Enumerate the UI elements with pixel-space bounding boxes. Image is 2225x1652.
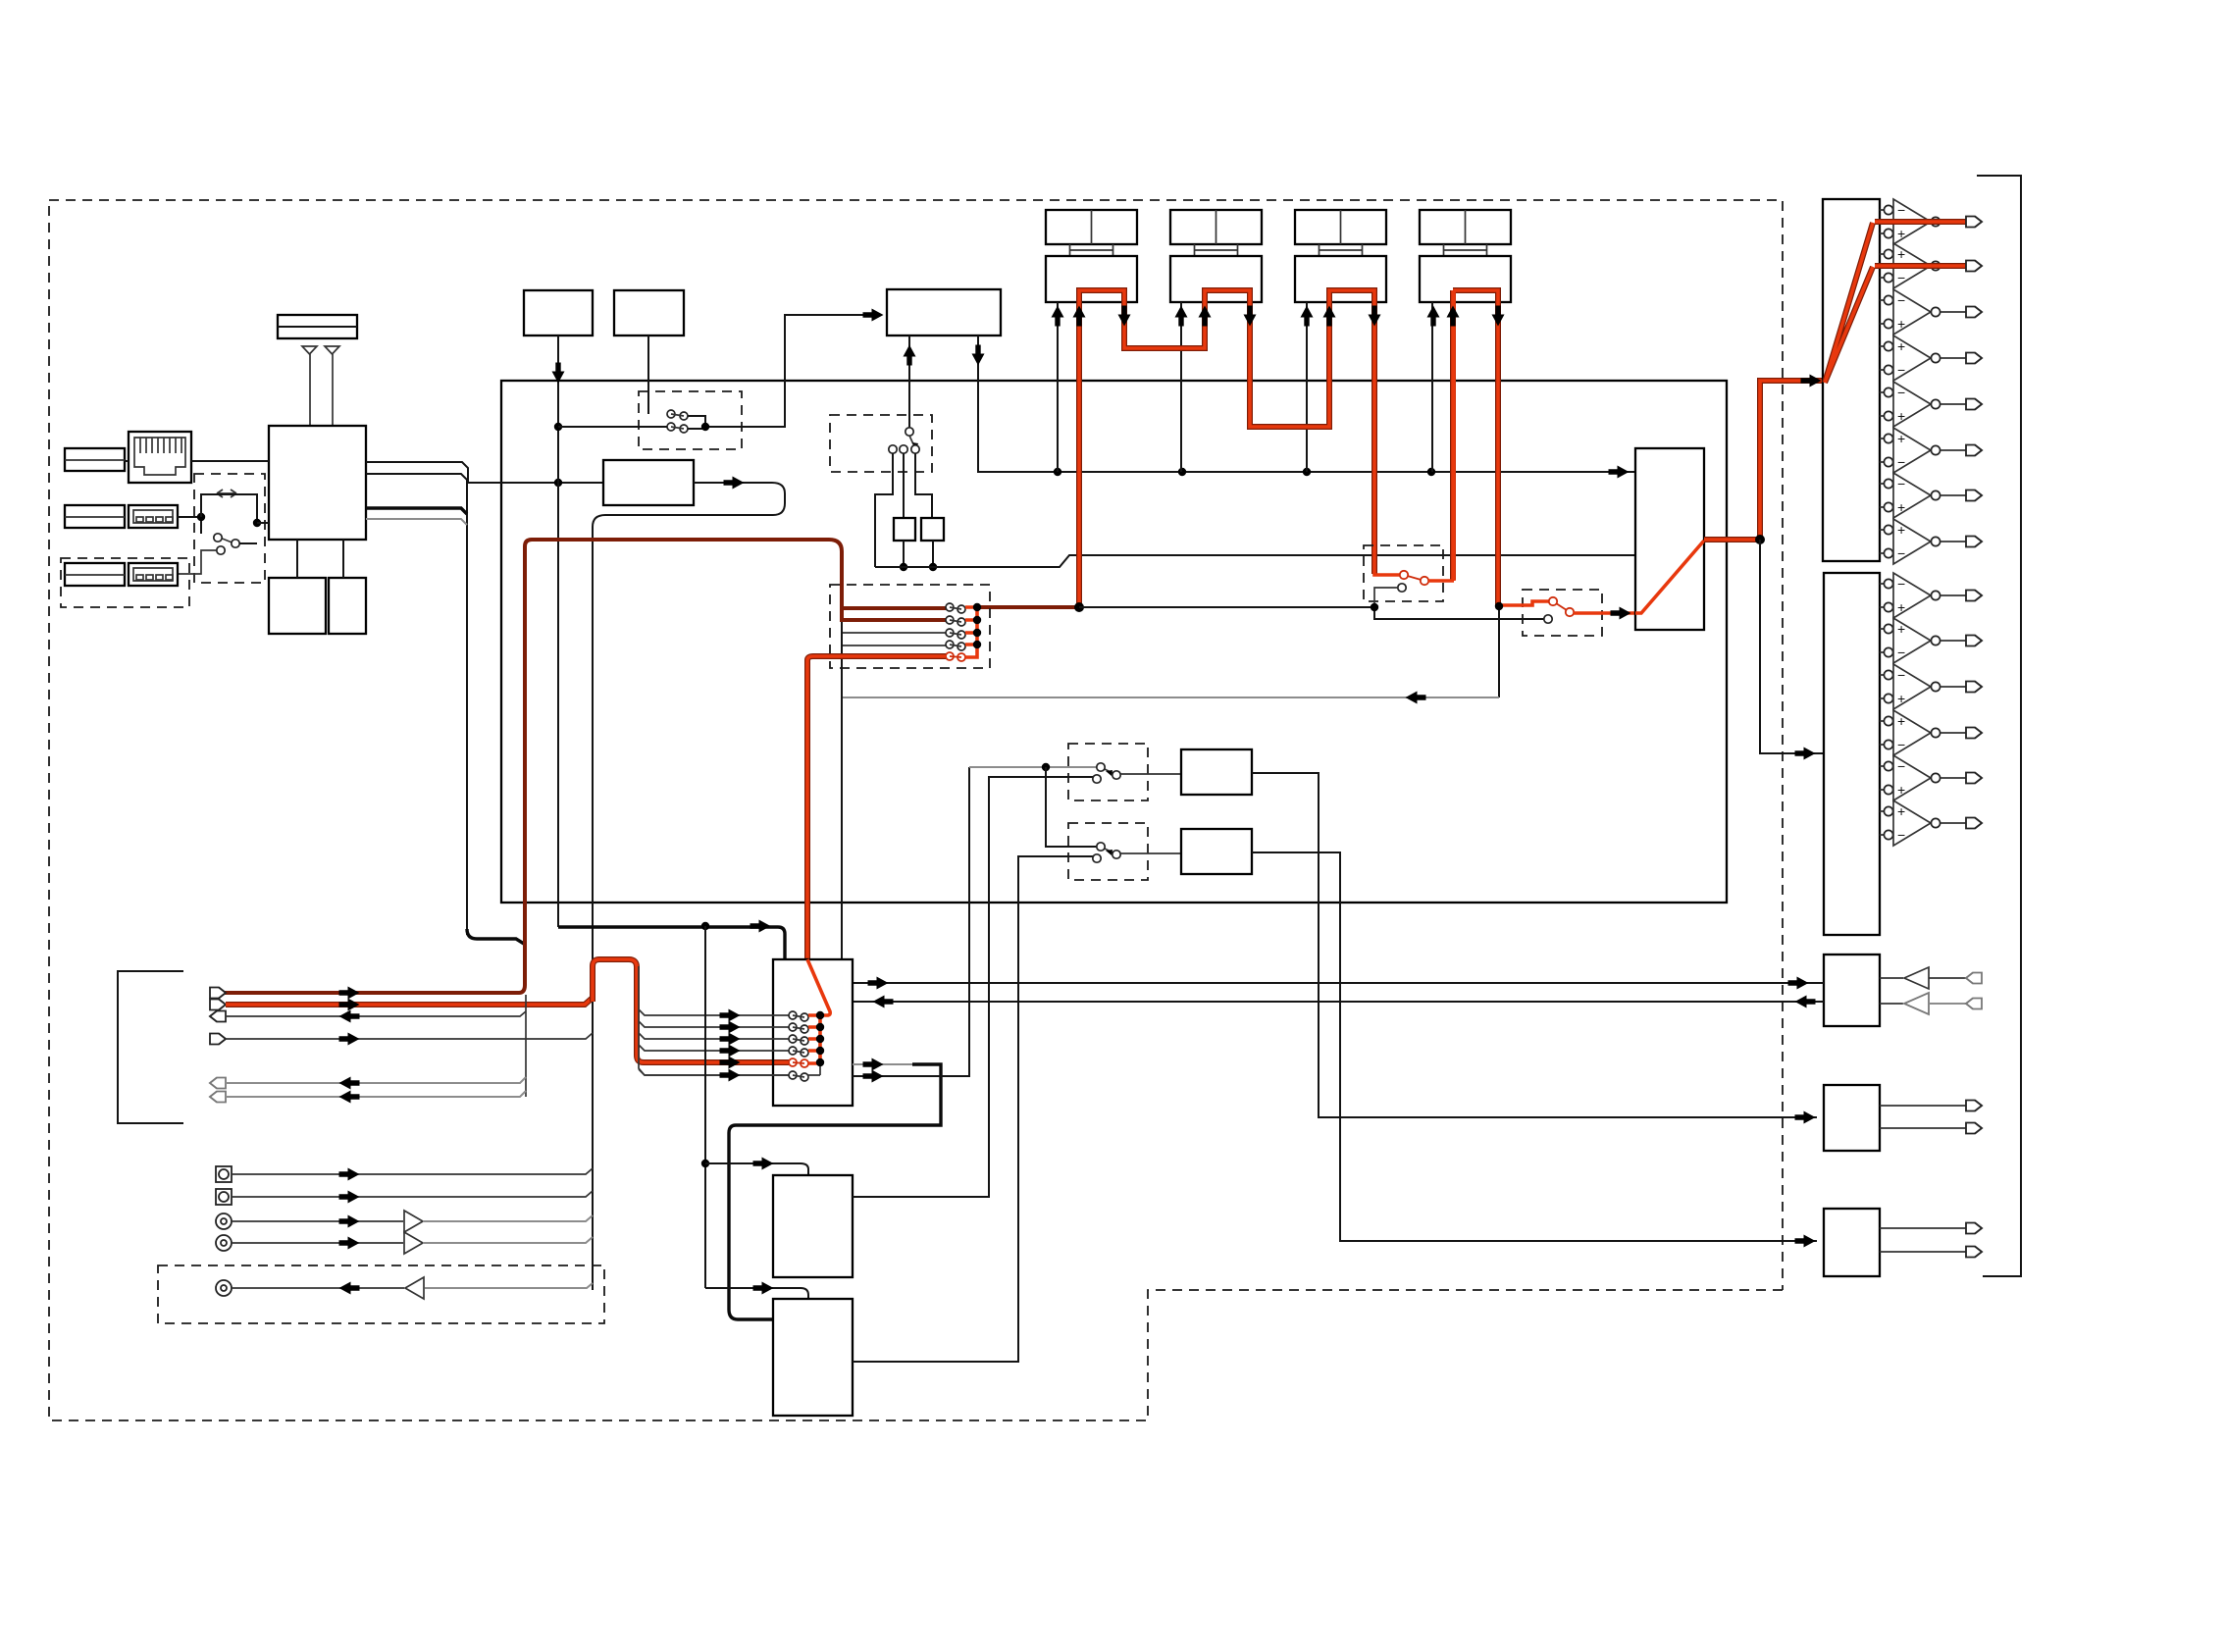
bank1 amp 6 xyxy=(1880,439,1884,462)
svg-text:+: + xyxy=(1897,782,1905,798)
strip 4 top box xyxy=(1420,210,1511,244)
arrow xyxy=(1052,306,1064,327)
buffer amp 3 xyxy=(405,1277,424,1299)
rec out A stub xyxy=(853,1063,912,1065)
bank1 amp 2 xyxy=(1880,254,1884,278)
switch B throw2 xyxy=(1093,854,1101,862)
box1 out wire xyxy=(853,777,1093,1197)
junction xyxy=(1427,468,1435,476)
red wire switch1 out xyxy=(1428,579,1454,583)
junction xyxy=(554,479,562,487)
arrow xyxy=(904,345,916,366)
wire rca2 xyxy=(232,1242,403,1244)
arrow xyxy=(1199,306,1212,327)
svg-text:+: + xyxy=(1897,713,1905,729)
strip 3 top box xyxy=(1295,210,1386,244)
arrow xyxy=(339,1010,360,1023)
rca connector 2 xyxy=(216,1235,232,1251)
junction xyxy=(816,1047,824,1055)
junction xyxy=(1178,468,1186,476)
strip 2 bottom box xyxy=(1170,256,1262,302)
switch contact xyxy=(667,423,675,431)
arrow xyxy=(1795,748,1816,760)
red hump core xyxy=(593,959,789,1062)
switch contact xyxy=(906,428,913,436)
input wire 3 xyxy=(226,1011,526,1016)
strip 4 bottom box xyxy=(1420,256,1511,302)
svg-text:−: − xyxy=(1897,362,1905,378)
junction xyxy=(1371,603,1378,611)
input wire 2 core xyxy=(226,998,593,1005)
arrow xyxy=(1301,306,1314,327)
junction xyxy=(197,513,205,521)
arrow xyxy=(339,1282,360,1295)
junction xyxy=(701,1160,709,1167)
arrow xyxy=(1788,977,1809,990)
svg-text:+: + xyxy=(1897,599,1905,615)
tuner main block xyxy=(269,426,366,540)
arrow xyxy=(720,1057,741,1069)
arrow xyxy=(1447,306,1460,327)
loop wire xyxy=(593,483,785,1290)
switch A pole xyxy=(1097,763,1105,771)
tuner bus corner to AF xyxy=(467,929,524,944)
bank2 amp 1 xyxy=(1880,584,1884,607)
red hump xyxy=(593,959,789,1062)
output connector xyxy=(1966,682,1982,693)
bank1 amp 7 xyxy=(1880,484,1884,507)
output connector xyxy=(1966,636,1982,646)
matrix fan row xyxy=(639,1021,789,1027)
monitor switch dashed box xyxy=(1364,545,1443,601)
svg-text:−: − xyxy=(1897,758,1905,774)
lineI connector 1 xyxy=(1966,1101,1982,1111)
hp feed R xyxy=(853,1001,1824,1003)
junction xyxy=(1054,468,1061,476)
input wire 2 red xyxy=(226,998,593,1005)
junction xyxy=(554,423,562,431)
switch contact xyxy=(680,425,688,433)
bottom row dashed box xyxy=(61,558,189,607)
tuner out 1 xyxy=(366,462,468,483)
PLL block G xyxy=(887,289,1001,336)
strip 1 top box xyxy=(1046,210,1137,244)
processor box 1 xyxy=(773,1175,853,1277)
switch arm xyxy=(220,538,234,543)
wire rca2 out xyxy=(423,1237,593,1243)
fan switch xyxy=(946,641,954,648)
lineJ wire 1 xyxy=(1880,1227,1966,1229)
switch contact xyxy=(911,445,919,453)
hp wire 2 xyxy=(1929,1003,1966,1005)
switch1 throw2 xyxy=(1398,584,1406,592)
strip 4 link xyxy=(1444,244,1487,256)
arrow xyxy=(339,1077,360,1090)
arrow xyxy=(339,999,360,1011)
arrow xyxy=(1795,1111,1816,1124)
output connector xyxy=(1966,773,1982,784)
lineI wire 2 xyxy=(1880,1127,1966,1129)
strip 2 top box xyxy=(1170,210,1262,244)
strip 3 link xyxy=(1319,244,1363,256)
input plug 2 xyxy=(210,1000,226,1010)
hp line 2 xyxy=(1880,1003,1903,1005)
junction xyxy=(1074,602,1084,612)
bank1 amp 3 xyxy=(1880,300,1884,324)
output side bracket xyxy=(1977,176,2021,1276)
matrix switch xyxy=(789,1011,797,1019)
svg-text:+: + xyxy=(1897,226,1905,241)
junction xyxy=(1495,602,1503,610)
switch A arm xyxy=(1101,767,1114,774)
wire row1 to RJ45 xyxy=(125,460,129,462)
hp line 1 xyxy=(1880,977,1903,979)
svg-text:−: − xyxy=(1897,202,1905,218)
output connector xyxy=(1966,818,1982,829)
arrow xyxy=(1244,306,1257,327)
lineI connector 2 xyxy=(1966,1123,1982,1134)
wire G pin1 xyxy=(908,336,910,428)
arrow xyxy=(1175,306,1188,327)
svg-text:+: + xyxy=(1897,803,1905,819)
matrix chain tail xyxy=(808,1062,820,1075)
matrix fan row xyxy=(639,1009,789,1015)
svg-text:−: − xyxy=(1897,737,1905,752)
wire B out xyxy=(1120,852,1181,854)
arrow xyxy=(1118,306,1131,327)
arrow xyxy=(1073,306,1086,327)
antenna terminal box xyxy=(278,315,357,338)
svg-text:−: − xyxy=(1897,667,1905,683)
arrow xyxy=(720,1045,741,1058)
wire switch out xyxy=(201,521,257,543)
wire rca3 out xyxy=(232,1287,404,1289)
resonator wiring xyxy=(875,453,932,567)
matrix switch red xyxy=(789,1058,797,1066)
selector red diagonal xyxy=(1635,541,1704,613)
arrow xyxy=(1369,306,1381,327)
arrow xyxy=(720,1009,741,1022)
input wire 4 xyxy=(226,1033,593,1039)
terminal box row2 xyxy=(65,505,125,528)
antenna symbol 1 xyxy=(302,346,317,354)
switch B out contact xyxy=(1112,851,1120,858)
wire C to line I xyxy=(1252,773,1817,1117)
tuner out 2 xyxy=(366,474,467,935)
switch arm xyxy=(909,436,914,446)
junction xyxy=(1755,535,1765,544)
wire strip3 ctrl xyxy=(1306,302,1308,472)
matrix chain red xyxy=(808,1015,820,1063)
fan switch red xyxy=(946,652,954,660)
wire res gnd1 xyxy=(903,541,905,567)
arrow xyxy=(339,1215,360,1228)
fan chain xyxy=(965,607,977,657)
arrow xyxy=(863,309,884,322)
wire to power amp xyxy=(1760,540,1824,753)
svg-text:+: + xyxy=(1897,499,1905,515)
arrow xyxy=(1795,996,1816,1008)
arrow xyxy=(1801,375,1822,387)
arrow xyxy=(1323,306,1336,327)
input link bus xyxy=(525,995,527,1097)
output connector xyxy=(1966,353,1982,364)
junction xyxy=(816,1011,824,1019)
arrow xyxy=(1795,1235,1816,1248)
box2 out wire xyxy=(853,856,1093,1362)
svg-text:+: + xyxy=(1897,316,1905,332)
matrix fan row xyxy=(639,1045,789,1051)
bank2 amp 3 xyxy=(1880,675,1884,698)
bidirectional glyph xyxy=(217,490,236,497)
lineJ connector 1 xyxy=(1966,1223,1982,1234)
wire strip1 ctrl xyxy=(1057,302,1059,472)
arrow xyxy=(720,1033,741,1046)
switch contact xyxy=(667,410,675,418)
control bus A xyxy=(1058,471,1635,473)
bank2 amp 5 xyxy=(1880,766,1884,790)
headphone amp box xyxy=(1824,955,1880,1026)
wire switch link xyxy=(688,416,705,427)
svg-text:−: − xyxy=(1897,827,1905,843)
driver bank 2 box xyxy=(1824,573,1880,935)
arrow xyxy=(1406,692,1426,704)
red riser xyxy=(807,656,946,959)
arrow xyxy=(339,1033,360,1046)
lineI wire 1 xyxy=(1880,1105,1966,1107)
red switch contact xyxy=(1566,608,1574,616)
wire tuner to sub A xyxy=(296,540,298,578)
resonator X1 xyxy=(894,518,915,541)
svg-text:+: + xyxy=(1897,338,1905,354)
optical connector 2 xyxy=(216,1189,232,1205)
strip 3 bottom box xyxy=(1295,256,1386,302)
fan row3 xyxy=(842,632,946,634)
wire rca1 out xyxy=(423,1215,593,1221)
driver bank 1 box xyxy=(1823,199,1880,561)
switch B dashed box xyxy=(1068,823,1148,880)
input plug 5 xyxy=(210,1078,226,1089)
red fan to amp1 xyxy=(1825,223,1873,383)
hp triangle 1 xyxy=(1904,967,1929,989)
arrow xyxy=(753,1158,774,1170)
RJ45 jack xyxy=(129,432,191,483)
junction xyxy=(929,563,937,571)
svg-text:−: − xyxy=(1897,454,1905,470)
matrix fan row xyxy=(639,1069,789,1075)
red switch arm xyxy=(1553,601,1570,612)
svg-text:+: + xyxy=(1897,246,1905,262)
junction xyxy=(1042,763,1050,771)
switch contact xyxy=(680,412,688,420)
arrow xyxy=(1427,306,1440,327)
svg-text:+: + xyxy=(1897,522,1905,538)
red switch arm xyxy=(1404,575,1424,581)
selector box xyxy=(1635,448,1704,630)
input plug 6 xyxy=(210,1092,226,1103)
tuner out 3 xyxy=(366,508,467,514)
switch B arm xyxy=(1101,847,1114,853)
arrow xyxy=(1609,466,1630,479)
red switch contact xyxy=(1400,571,1408,579)
svg-text:−: − xyxy=(1897,476,1905,491)
buffer amp 1 xyxy=(404,1211,423,1232)
arrow xyxy=(868,977,889,990)
red switch contact xyxy=(1549,597,1557,605)
wire box1 top xyxy=(705,1163,808,1175)
rec select dashed box xyxy=(1523,590,1602,636)
input bracket xyxy=(118,971,183,1123)
output connector xyxy=(1966,399,1982,410)
mute switch dashed box xyxy=(639,391,742,449)
bank2 amp 2 xyxy=(1880,629,1884,652)
red selector out xyxy=(1704,381,1823,540)
svg-text:+: + xyxy=(1897,408,1905,424)
arrow xyxy=(863,1070,884,1083)
line out box I xyxy=(1824,1085,1880,1151)
matrix switch xyxy=(789,1071,797,1079)
wire rec bus down xyxy=(841,622,843,959)
tuner sub-block A xyxy=(269,578,326,634)
input wire 5 xyxy=(226,1077,526,1083)
arrow xyxy=(339,1091,360,1104)
hp triangle 2 xyxy=(1904,993,1929,1014)
monitor bus thin xyxy=(1079,607,1544,619)
wire res gnd2 xyxy=(932,541,934,567)
rec out B xyxy=(853,767,969,1076)
red wire to selector xyxy=(1574,611,1635,615)
svg-text:−: − xyxy=(1897,385,1905,400)
monitor bus xyxy=(977,605,1079,609)
switch A out contact xyxy=(1112,771,1120,779)
red fan to amp1 core xyxy=(1825,223,1873,383)
hp feed L xyxy=(853,982,1824,984)
arrow xyxy=(552,363,565,384)
switch arm xyxy=(671,414,684,416)
red wire up strip4 xyxy=(1452,290,1456,581)
fan row4 xyxy=(842,645,946,646)
junction xyxy=(816,1058,824,1066)
red riser core xyxy=(807,656,946,959)
arrow xyxy=(339,987,360,1000)
arrow xyxy=(873,996,894,1008)
maroon row2 xyxy=(842,618,946,622)
arrow xyxy=(720,1021,741,1034)
input plug 1 xyxy=(210,988,226,999)
wire strip4 down xyxy=(1498,605,1500,697)
junction xyxy=(816,1023,824,1031)
ctrl riser xyxy=(705,926,808,1299)
junction xyxy=(973,641,981,648)
wire lower throw xyxy=(178,550,216,574)
arrow xyxy=(724,477,745,490)
switch contact xyxy=(232,540,239,547)
maroon row1 xyxy=(842,606,946,610)
output connector xyxy=(1966,537,1982,547)
strip 2 link xyxy=(1195,244,1238,256)
red out amp2 xyxy=(1875,263,1966,269)
connector row3 xyxy=(129,563,178,586)
output connector xyxy=(1966,591,1982,601)
junction xyxy=(973,616,981,624)
wire E1 down xyxy=(557,336,559,927)
svg-text:−: − xyxy=(1897,645,1905,660)
wire G pin2 xyxy=(978,336,1058,472)
red path strip1 xyxy=(1079,290,1374,607)
hp connector 1 xyxy=(1966,973,1982,984)
wire rca3 xyxy=(425,1283,593,1288)
bank1 amp 1 xyxy=(1880,210,1884,233)
junction xyxy=(900,563,907,571)
switch A dashed box xyxy=(1068,744,1148,800)
arrow xyxy=(750,920,771,933)
junction xyxy=(816,1035,824,1043)
wire rca1 xyxy=(232,1220,403,1222)
junction xyxy=(253,519,261,527)
wire E2 down xyxy=(647,336,649,414)
red path strip4 core xyxy=(1453,290,1498,605)
connector row2 xyxy=(129,505,178,528)
arrow xyxy=(339,1168,360,1181)
red path strip4 xyxy=(1453,290,1498,605)
junction xyxy=(973,603,981,611)
arrow xyxy=(863,1058,884,1071)
bus to matrix xyxy=(558,927,785,959)
input plug 4 xyxy=(210,1034,226,1045)
maroon main path xyxy=(225,540,842,993)
resonator dashed box xyxy=(830,415,932,472)
rec out A xyxy=(729,1064,941,1319)
terminal box row1 xyxy=(65,448,125,471)
switch B pole xyxy=(1097,843,1105,851)
red selector out core xyxy=(1704,381,1823,540)
junction xyxy=(1303,468,1311,476)
switch A throw2 xyxy=(1093,775,1101,783)
switch arm xyxy=(671,427,684,429)
wire RJ45 to tuner xyxy=(191,460,269,462)
wire strip4 ctrl xyxy=(1431,302,1433,472)
wire switch top loop xyxy=(201,494,257,523)
switch contact xyxy=(217,546,225,554)
strip 1 link xyxy=(1070,244,1113,256)
switch contact xyxy=(889,445,897,453)
lineJ connector 2 xyxy=(1966,1247,1982,1258)
svg-text:−: − xyxy=(1897,576,1905,592)
wire row2 to switch xyxy=(178,516,201,518)
hp connector 2 xyxy=(1966,999,1982,1009)
output connector xyxy=(1966,217,1982,228)
wire bus 435 xyxy=(558,315,876,429)
matrix red diagonal xyxy=(807,959,830,1018)
input wire 6 xyxy=(226,1091,526,1097)
main bus rectangle xyxy=(501,381,1727,903)
svg-text:+: + xyxy=(1897,621,1905,637)
hp wire 1 xyxy=(1929,977,1966,979)
lineJ wire 2 xyxy=(1880,1251,1966,1253)
arrow xyxy=(339,1237,360,1250)
switch contact xyxy=(214,534,222,542)
optical connector 1 xyxy=(216,1166,232,1182)
matrix box xyxy=(773,959,853,1106)
bank2 amp 4 xyxy=(1880,721,1884,745)
matrix switch xyxy=(789,1035,797,1043)
resonator X2 xyxy=(921,518,944,541)
bank1 amp 8 xyxy=(1880,530,1884,553)
relay box C xyxy=(1181,749,1252,795)
red out amp1 xyxy=(1875,219,1966,225)
terminal box row3 xyxy=(65,563,125,586)
output connector xyxy=(1966,490,1982,501)
